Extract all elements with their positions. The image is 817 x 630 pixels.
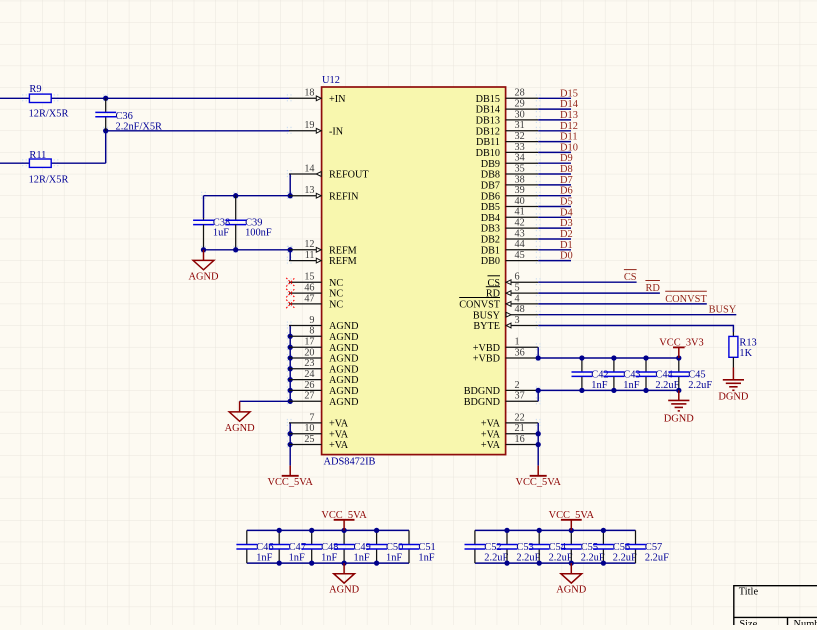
- svg-text:18: 18: [304, 88, 314, 99]
- svg-text:19: 19: [304, 120, 314, 131]
- wire net REFM row: [204, 249, 291, 251]
- svg-text:Size: Size: [739, 619, 757, 625]
- U12 pin 27 (AGND) left: [289, 400, 322, 402]
- wire net D14: [538, 108, 571, 110]
- svg-text:+VA: +VA: [329, 419, 349, 430]
- U12 pin 2 (BDGND) right: [506, 389, 539, 391]
- svg-text:D7: D7: [560, 175, 573, 186]
- svg-text:24: 24: [304, 369, 314, 380]
- svg-text:8: 8: [309, 326, 314, 337]
- svg-text:RD: RD: [486, 289, 500, 300]
- svg-text:9: 9: [309, 315, 314, 326]
- svg-text:AGND: AGND: [329, 397, 358, 408]
- svg-text:DB8: DB8: [481, 170, 500, 181]
- U12 pin 37 (BDGND) right: [506, 400, 539, 402]
- svg-text:2.2nF/X5R: 2.2nF/X5R: [116, 121, 163, 132]
- junction C55 top: [569, 528, 574, 533]
- wire net BDGND rail: [538, 389, 679, 391]
- svg-text:1nF: 1nF: [591, 380, 607, 391]
- svg-text:6: 6: [515, 272, 520, 283]
- svg-text:46: 46: [304, 283, 314, 294]
- svg-text:D14: D14: [560, 99, 579, 110]
- svg-text:AGND: AGND: [329, 386, 358, 397]
- svg-text:16: 16: [515, 434, 525, 445]
- svg-text:R11: R11: [29, 150, 46, 161]
- svg-text:R13: R13: [739, 338, 756, 349]
- wire +VA bus vertical: [289, 423, 291, 466]
- capacitor C50: [376, 530, 378, 544]
- junction AGND bus row 23: [288, 345, 293, 350]
- power VCC_3V3: [678, 347, 680, 358]
- capacitor C49: [343, 530, 345, 544]
- capacitor C36: [105, 98, 107, 112]
- junction AGND bus row 24: [288, 355, 293, 360]
- svg-text:DB3: DB3: [481, 224, 500, 235]
- junction C47 top: [277, 528, 282, 533]
- junction AGND bus row 26: [288, 377, 293, 382]
- svg-text:D3: D3: [560, 218, 573, 229]
- svg-text:14: 14: [304, 163, 314, 174]
- svg-text:7: 7: [309, 412, 314, 423]
- svg-text:1nF: 1nF: [354, 553, 370, 564]
- junction C48 top: [309, 528, 314, 533]
- svg-text:DB0: DB0: [481, 256, 500, 267]
- junction +VA row25: [288, 442, 293, 447]
- U12 pin 32 (DB11) right: [506, 141, 539, 143]
- junction BDGND: [536, 388, 541, 393]
- svg-text:43: 43: [515, 228, 525, 239]
- svg-text:+IN: +IN: [329, 94, 346, 105]
- svg-text:48: 48: [515, 304, 525, 315]
- U12 pin 38 (DB7) right: [506, 184, 539, 186]
- U12 pin 20 (AGND) left: [289, 357, 322, 359]
- junction C47 bottom: [277, 560, 282, 565]
- U12 pin 12 (REFM) left: [289, 249, 322, 251]
- svg-text:DB11: DB11: [476, 137, 500, 148]
- U12 pin 10 (+VA) left: [289, 433, 322, 435]
- wire C38 column top: [203, 196, 205, 218]
- svg-text:AGND: AGND: [329, 375, 358, 386]
- junction node +IN/C36: [103, 96, 108, 101]
- svg-text:+VA: +VA: [329, 429, 349, 440]
- junction +VA row10: [288, 431, 293, 436]
- svg-text:28: 28: [515, 88, 525, 99]
- svg-text:AGND: AGND: [556, 585, 587, 596]
- wire net D6: [538, 195, 571, 197]
- wire net D1: [538, 249, 571, 251]
- capacitor C53: [506, 530, 508, 544]
- svg-text:REFOUT: REFOUT: [329, 170, 369, 181]
- wire net CS: [538, 281, 636, 283]
- junction C56 top: [601, 528, 606, 533]
- svg-text:12R/X5R: 12R/X5R: [29, 109, 69, 120]
- capacitor C45: [678, 358, 680, 372]
- wire net D2: [538, 238, 571, 240]
- junction C49 bottom: [341, 560, 346, 565]
- wire cap bank1 top rail: [247, 529, 409, 531]
- wire R11 up to -IN: [105, 131, 107, 163]
- svg-text:BDGND: BDGND: [464, 397, 500, 408]
- svg-text:BYTE: BYTE: [473, 321, 500, 332]
- svg-text:3: 3: [515, 315, 520, 326]
- capacitor C39: [235, 196, 237, 221]
- U12 pin 45 (DB0) right: [506, 260, 539, 262]
- junction +VA row16: [536, 442, 541, 447]
- U12 pin 35 (DB8) right: [506, 173, 539, 175]
- wire net D3: [538, 227, 571, 229]
- svg-text:+VA: +VA: [481, 440, 501, 451]
- resistor R11: [0, 162, 106, 164]
- capacitor C44: [645, 358, 647, 372]
- svg-text:C36: C36: [116, 111, 133, 122]
- wire +VBD pins join: [537, 347, 539, 358]
- ground AGND (bank1): [343, 563, 345, 574]
- power VCC_5VA (bank2): [570, 520, 572, 531]
- svg-text:1nF: 1nF: [321, 553, 337, 564]
- wire net +VBD rail: [538, 357, 679, 359]
- wire net +IN row: [0, 97, 289, 99]
- svg-text:DB14: DB14: [476, 105, 500, 116]
- svg-text:DGND: DGND: [664, 414, 695, 425]
- svg-text:ADS8472IB: ADS8472IB: [324, 457, 376, 468]
- svg-text:21: 21: [515, 423, 525, 434]
- svg-text:22: 22: [515, 412, 525, 423]
- svg-text:DB4: DB4: [481, 213, 500, 224]
- junction +VBD: [536, 355, 541, 360]
- svg-text:NC: NC: [329, 278, 343, 289]
- svg-text:30: 30: [515, 109, 525, 120]
- wire net D5: [538, 206, 571, 208]
- U12 pin 13 (REFIN) left: [289, 195, 322, 197]
- U12 pin 36 (+VBD) right: [506, 357, 539, 359]
- power VCC_5VA (right): [537, 466, 539, 476]
- wire net D10: [538, 151, 571, 153]
- wire REFM pin11 drop: [289, 250, 291, 261]
- wire net -IN row: [106, 130, 290, 132]
- title block frame: [734, 585, 817, 587]
- svg-text:D10: D10: [560, 142, 578, 153]
- svg-text:C57: C57: [645, 542, 662, 553]
- junction REFM/C38: [201, 247, 206, 252]
- junction C50 bottom: [374, 560, 379, 565]
- wire AGND row to ground: [240, 400, 291, 402]
- svg-text:DB5: DB5: [481, 202, 500, 213]
- capacitor C47: [278, 530, 280, 544]
- svg-text:DB12: DB12: [476, 126, 500, 137]
- junction C43 top: [611, 355, 616, 360]
- svg-text:Title: Title: [739, 587, 759, 598]
- junction C54 bottom: [537, 560, 542, 565]
- svg-text:2.2uF: 2.2uF: [655, 380, 679, 391]
- capacitor C38: [203, 218, 205, 220]
- wire net RD: [538, 292, 660, 294]
- svg-text:VCC_5VA: VCC_5VA: [321, 510, 367, 521]
- svg-text:37: 37: [515, 391, 525, 402]
- svg-text:AGND: AGND: [329, 585, 360, 596]
- junction C53 bottom: [504, 560, 509, 565]
- svg-text:34: 34: [515, 153, 525, 164]
- svg-text:D8: D8: [560, 164, 573, 175]
- svg-text:+VA: +VA: [329, 440, 349, 451]
- svg-text:AGND: AGND: [329, 354, 358, 365]
- capacitor C55: [570, 530, 572, 544]
- svg-text:D11: D11: [560, 132, 578, 143]
- junction C45 top: [676, 355, 681, 360]
- junction REFM/C39: [233, 247, 238, 252]
- svg-text:2: 2: [515, 380, 520, 391]
- svg-text:1: 1: [515, 337, 520, 348]
- svg-text:DB1: DB1: [481, 245, 500, 256]
- U12 pin 6 (CS) right: [506, 281, 539, 283]
- svg-text:AGND: AGND: [188, 271, 219, 282]
- junction AGND bus row 27: [288, 388, 293, 393]
- svg-text:BUSY: BUSY: [709, 305, 737, 316]
- wire cap bank2 top rail: [475, 529, 636, 531]
- U12 pin 16 (+VA) right: [506, 444, 539, 446]
- U12 pin 30 (DB13) right: [506, 119, 539, 121]
- capacitor C52: [474, 530, 476, 544]
- wire net D15: [538, 97, 571, 99]
- ground AGND (bank2): [570, 563, 572, 574]
- junction C49 top: [341, 528, 346, 533]
- wire net CONVST: [538, 303, 707, 305]
- resistor R13: [732, 332, 734, 336]
- svg-text:23: 23: [304, 358, 314, 369]
- svg-text:RD: RD: [645, 283, 660, 294]
- svg-text:1nF: 1nF: [289, 553, 305, 564]
- capacitor C43: [613, 358, 615, 372]
- svg-text:1nF: 1nF: [256, 553, 272, 564]
- junction C45 bottom: [676, 388, 681, 393]
- U12 pin 4 (CONVST) right: [506, 303, 539, 305]
- svg-text:BUSY: BUSY: [473, 310, 501, 321]
- svg-text:DB7: DB7: [481, 181, 500, 192]
- ground AGND (chip left): [239, 401, 241, 412]
- U12 pin 44 (DB1) right: [506, 249, 539, 251]
- svg-text:D4: D4: [560, 207, 574, 218]
- svg-text:26: 26: [304, 380, 314, 391]
- svg-text:REFM: REFM: [329, 256, 357, 267]
- wire net REFIN row: [204, 195, 291, 197]
- svg-text:U12: U12: [322, 75, 340, 86]
- svg-text:NC: NC: [329, 300, 343, 311]
- svg-text:38: 38: [515, 174, 525, 185]
- svg-text:AGND: AGND: [329, 321, 358, 332]
- svg-text:D12: D12: [560, 121, 578, 132]
- U12 pin 7 (+VA) left: [289, 422, 322, 424]
- svg-text:D1: D1: [560, 240, 573, 251]
- svg-text:5: 5: [515, 283, 520, 294]
- junction C56 bottom: [601, 560, 606, 565]
- U12 pin 41 (DB4) right: [506, 216, 539, 218]
- svg-text:VCC_5VA: VCC_5VA: [515, 477, 561, 488]
- junction C55 bottom: [569, 560, 574, 565]
- svg-text:33: 33: [515, 142, 525, 153]
- svg-text:1nF: 1nF: [623, 380, 639, 391]
- wire AGND bus vertical: [289, 326, 291, 402]
- svg-text:12R/X5R: 12R/X5R: [29, 175, 69, 186]
- svg-text:2.2uF: 2.2uF: [688, 380, 712, 391]
- capacitor C48: [311, 530, 313, 544]
- U12 pin 24 (AGND) left: [289, 379, 322, 381]
- junction +VA row21: [536, 431, 541, 436]
- wire REFOUT to REFIN: [289, 174, 291, 196]
- U12 pin 48 (BUSY) right: [506, 314, 539, 316]
- svg-text:AGND: AGND: [225, 423, 256, 434]
- wire net D12: [538, 130, 571, 132]
- svg-text:VCC_3V3: VCC_3V3: [659, 337, 703, 348]
- svg-text:DB9: DB9: [481, 159, 500, 170]
- svg-text:2.2uF: 2.2uF: [645, 553, 669, 564]
- U12 pin 31 (DB12) right: [506, 130, 539, 132]
- wire +VA bus right vertical: [537, 423, 539, 466]
- svg-text:44: 44: [515, 239, 525, 250]
- wire BDGND pins join: [537, 390, 539, 401]
- wire net D11: [538, 141, 571, 143]
- capacitor C51: [408, 530, 410, 544]
- svg-text:C51: C51: [418, 542, 435, 553]
- wire net D4: [538, 216, 571, 218]
- svg-text:-IN: -IN: [329, 126, 344, 137]
- junction AGND bus row 25: [288, 366, 293, 371]
- junction C42 top: [579, 355, 584, 360]
- ground DGND (decoupling): [678, 390, 680, 400]
- junction C44 top: [643, 355, 648, 360]
- wire net D8: [538, 173, 571, 175]
- svg-text:10: 10: [304, 423, 314, 434]
- svg-text:C45: C45: [688, 370, 705, 381]
- svg-text:+VA: +VA: [481, 429, 501, 440]
- svg-text:C38: C38: [213, 217, 230, 228]
- junction C48 bottom: [309, 560, 314, 565]
- svg-text:39: 39: [515, 185, 525, 196]
- svg-text:C39: C39: [245, 217, 262, 228]
- svg-text:CONVST: CONVST: [459, 300, 501, 311]
- U12 pin 21 (+VA) right: [506, 433, 539, 435]
- svg-text:AGND: AGND: [329, 343, 358, 354]
- U12 pin 8 (AGND) left: [289, 335, 322, 337]
- svg-text:D13: D13: [560, 110, 578, 121]
- svg-text:CS: CS: [624, 272, 637, 283]
- svg-text:31: 31: [515, 120, 525, 131]
- svg-text:36: 36: [515, 347, 525, 358]
- svg-text:NC: NC: [329, 289, 343, 300]
- svg-text:+VBD: +VBD: [473, 343, 500, 354]
- svg-text:11: 11: [305, 250, 315, 261]
- svg-text:41: 41: [515, 207, 525, 218]
- svg-text:+VBD: +VBD: [473, 354, 500, 365]
- junction REFM/pin11: [288, 247, 293, 252]
- svg-text:20: 20: [304, 347, 314, 358]
- wire net BYTE: [538, 325, 733, 327]
- U12 pin 22 (+VA) right: [506, 422, 539, 424]
- svg-text:D15: D15: [560, 88, 578, 99]
- svg-text:15: 15: [304, 272, 314, 283]
- U12 pin 28 (DB15) right: [506, 97, 539, 99]
- wire net D0: [538, 260, 571, 262]
- U12 pin 39 (DB6) right: [506, 195, 539, 197]
- svg-text:35: 35: [515, 163, 525, 174]
- svg-text:2.2uF: 2.2uF: [613, 553, 637, 564]
- svg-text:BDGND: BDGND: [464, 386, 500, 397]
- U12 pin 1 (+VBD) right: [506, 346, 539, 348]
- junction node -IN/C36: [103, 128, 108, 133]
- junction C42 bottom: [579, 388, 584, 393]
- capacitor C42: [581, 358, 583, 372]
- svg-text:1K: 1K: [739, 348, 752, 359]
- ground AGND (ref caps): [203, 250, 205, 261]
- U12 pin 40 (DB5) right: [506, 206, 539, 208]
- capacitor C54: [538, 530, 540, 544]
- svg-text:DB2: DB2: [481, 235, 500, 246]
- wire net BUSY: [538, 314, 736, 316]
- op-amp U12 ADS8472IB body: [322, 87, 506, 455]
- U12 pin 19 (-IN) left: [289, 130, 322, 132]
- capacitor C46: [246, 530, 248, 544]
- svg-text:1nF: 1nF: [386, 553, 402, 564]
- U12 pin 17 (AGND) left: [289, 346, 322, 348]
- U12 pin 23 (AGND) left: [289, 368, 322, 370]
- svg-text:1uF: 1uF: [213, 228, 229, 239]
- U12 pin 42 (DB3) right: [506, 227, 539, 229]
- svg-text:4: 4: [515, 293, 520, 304]
- svg-text:1nF: 1nF: [418, 553, 434, 564]
- svg-text:42: 42: [515, 218, 525, 229]
- U12 pin 3 (BYTE) right: [506, 325, 539, 327]
- junction C43 bottom: [611, 388, 616, 393]
- U12 pin 9 (AGND) left: [289, 325, 322, 327]
- junction C54 top: [537, 528, 542, 533]
- U12 pin 18 (+IN) left: [289, 97, 322, 99]
- wire net D7: [538, 184, 571, 186]
- junction REFIN/C39: [233, 193, 238, 198]
- svg-text:17: 17: [304, 337, 314, 348]
- svg-text:D2: D2: [560, 229, 573, 240]
- wire net D13: [538, 119, 571, 121]
- U12 pin 29 (DB14) right: [506, 108, 539, 110]
- wire cap bank1 bottom rail: [247, 562, 409, 564]
- power VCC_5VA (bank1): [343, 520, 345, 531]
- svg-text:DGND: DGND: [718, 391, 749, 402]
- svg-text:27: 27: [304, 391, 314, 402]
- svg-text:40: 40: [515, 196, 525, 207]
- U12 pin 46 (NC) left: [289, 292, 322, 294]
- svg-text:D6: D6: [560, 186, 573, 197]
- junction AGND bus row 22: [288, 334, 293, 339]
- wire cap bank2 bottom rail: [475, 562, 636, 564]
- capacitor C57: [635, 530, 637, 544]
- svg-text:R9: R9: [29, 84, 41, 95]
- svg-text:REFIN: REFIN: [329, 191, 359, 202]
- svg-text:29: 29: [515, 99, 525, 110]
- svg-text:DB10: DB10: [476, 148, 500, 159]
- junction C50 top: [374, 528, 379, 533]
- svg-text:D9: D9: [560, 153, 573, 164]
- svg-text:CONVST: CONVST: [665, 294, 707, 305]
- svg-text:47: 47: [304, 293, 314, 304]
- U12 pin 25 (+VA) left: [289, 444, 322, 446]
- svg-text:13: 13: [304, 185, 314, 196]
- svg-text:DB15: DB15: [476, 94, 500, 105]
- U12 pin 26 (AGND) left: [289, 389, 322, 391]
- ground DGND (R13): [732, 368, 734, 380]
- U12 pin 15 (NC) left: [289, 281, 322, 283]
- svg-text:VCC_5VA: VCC_5VA: [549, 510, 595, 521]
- svg-text:REFM: REFM: [329, 245, 357, 256]
- svg-text:25: 25: [304, 434, 314, 445]
- svg-text:12: 12: [304, 239, 314, 250]
- U12 pin 43 (DB2) right: [506, 238, 539, 240]
